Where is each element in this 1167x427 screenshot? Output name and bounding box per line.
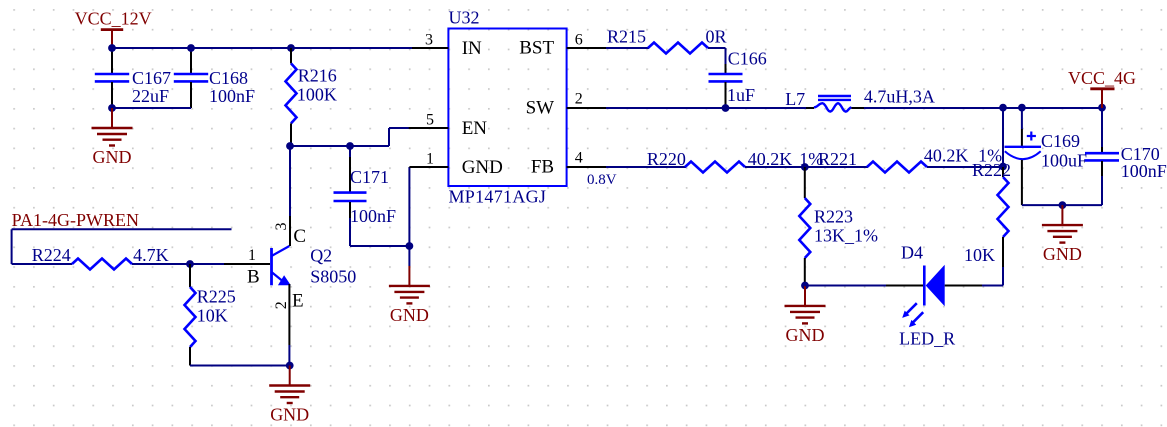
wire PA1-4G-PWREN <box>12 229 232 264</box>
resistor R215 <box>607 27 727 54</box>
capacitor C169 <box>1005 108 1088 205</box>
pin 1 GND <box>409 151 502 179</box>
svg-text:C171: C171 <box>350 167 389 187</box>
svg-text:S8050: S8050 <box>310 267 356 287</box>
svg-text:VCC_4G: VCC_4G <box>1068 68 1136 88</box>
svg-text:R224: R224 <box>32 245 71 265</box>
node bottom wire / GND junction <box>1059 201 1067 209</box>
svg-text:1uF: 1uF <box>727 85 755 105</box>
svg-text:13K_1%: 13K_1% <box>814 226 878 246</box>
resistor R216 <box>286 48 337 146</box>
node R221/R222 junction <box>999 163 1007 171</box>
svg-text:R221: R221 <box>818 149 857 169</box>
svg-text:EN: EN <box>462 118 488 139</box>
svg-text:2: 2 <box>273 301 290 309</box>
node R220/R221/R223 junction <box>801 163 809 171</box>
svg-text:U32: U32 <box>449 8 480 28</box>
wire VCC_12V rail to pin IN <box>111 47 412 49</box>
svg-text:L7: L7 <box>785 89 805 109</box>
svg-text:6: 6 <box>575 32 583 49</box>
svg-text:E: E <box>292 291 304 312</box>
svg-text:100uF: 100uF <box>1041 151 1087 171</box>
svg-text:1: 1 <box>426 151 434 168</box>
ground G1 <box>92 108 133 167</box>
svg-text:C: C <box>293 226 306 247</box>
wire R221 to output branch <box>927 108 1003 167</box>
power port VCC_12V <box>75 9 152 48</box>
wire SW to L7 <box>606 107 807 109</box>
pin 4 FB <box>531 150 617 189</box>
svg-text:C166: C166 <box>728 49 767 69</box>
svg-text:22uF: 22uF <box>132 86 169 106</box>
svg-text:R215: R215 <box>607 27 646 47</box>
pin 2 SW <box>526 91 606 119</box>
svg-text:SW: SW <box>526 98 555 119</box>
svg-text:GND: GND <box>390 305 429 325</box>
inductor L7 <box>785 87 935 112</box>
resistor R225 <box>185 264 236 366</box>
wire emitter <box>288 284 290 366</box>
svg-text:100K: 100K <box>297 85 337 105</box>
resistor R224 <box>32 245 169 270</box>
svg-text:5: 5 <box>426 112 434 129</box>
wire R222 bottom to LED <box>982 267 1003 286</box>
wire collector <box>289 146 291 246</box>
wire L7 to VCC_4G rail <box>864 107 1102 109</box>
svg-text:C168: C168 <box>209 68 248 88</box>
wire BST to R215 <box>606 47 649 49</box>
svg-text:VCC_12V: VCC_12V <box>75 9 152 29</box>
svg-text:10K: 10K <box>964 245 995 265</box>
wire C168 bottom to C167 bottom <box>112 107 191 109</box>
node rail / VCC_4G / C170 junction <box>1098 104 1106 112</box>
wire R225 bottom to emitter <box>190 365 290 367</box>
svg-text:100nF: 100nF <box>350 206 396 226</box>
svg-text:GND: GND <box>93 147 132 167</box>
svg-text:IN: IN <box>462 38 482 59</box>
svg-text:GND: GND <box>786 325 825 345</box>
pin 3 IN <box>412 32 482 60</box>
capacitor C167 <box>95 48 171 108</box>
wire R215 to C166 <box>708 48 726 64</box>
resistor R223 <box>799 167 878 286</box>
op-amp U1 IC U32 MP1471AGJ body <box>448 8 566 207</box>
svg-text:BST: BST <box>519 38 554 59</box>
svg-text:R220: R220 <box>647 149 686 169</box>
wire R220 to R221 <box>745 166 868 168</box>
node rail / R222 branch junction <box>999 104 1007 112</box>
wire GND junction to LED <box>805 285 886 287</box>
svg-text:C167: C167 <box>132 68 171 88</box>
svg-text:B: B <box>247 267 260 288</box>
ground G4 <box>785 286 826 345</box>
node C171 junction <box>346 142 354 150</box>
wire junction to GND symbol <box>408 246 410 266</box>
svg-text:LED_R: LED_R <box>899 329 955 349</box>
node C171 GND junction <box>406 242 414 250</box>
resistor R220 <box>647 149 823 173</box>
svg-text:4: 4 <box>575 150 583 167</box>
node rail / C169 junction <box>1018 104 1026 112</box>
node emitter / GND junction <box>286 362 294 370</box>
svg-text:GND: GND <box>1043 244 1082 264</box>
svg-text:3: 3 <box>425 32 433 49</box>
node R223 bottom / GND / LED junction <box>801 282 809 290</box>
capacitor C171 <box>334 146 397 246</box>
power port VCC_4G <box>1068 68 1136 108</box>
svg-text:PA1-4G-PWREN: PA1-4G-PWREN <box>12 210 139 230</box>
svg-text:D4: D4 <box>901 243 923 263</box>
node C166 / SW junction <box>722 104 730 112</box>
ground G3 <box>269 366 310 425</box>
svg-text:0.8V: 0.8V <box>587 172 617 188</box>
svg-text:4.7uH,3A: 4.7uH,3A <box>864 87 935 107</box>
svg-text:R223: R223 <box>814 207 853 227</box>
svg-text:0R: 0R <box>706 27 727 47</box>
svg-text:10K: 10K <box>197 306 228 326</box>
pin 5 EN <box>409 112 488 140</box>
svg-text:100nF: 100nF <box>209 86 255 106</box>
node R224/R225/base junction <box>186 260 194 268</box>
capacitor C166 <box>709 49 767 109</box>
svg-text:R225: R225 <box>197 287 236 307</box>
node VCC rail / R216 junction <box>287 44 295 52</box>
svg-text:40.2K: 40.2K <box>924 146 969 166</box>
svg-text:Q2: Q2 <box>310 246 332 266</box>
net label PA1-4G-PWREN <box>12 210 139 230</box>
node VCC rail / C168 junction <box>187 44 195 52</box>
svg-text:1: 1 <box>248 247 256 264</box>
resistor R222 <box>964 160 1011 268</box>
svg-text:3: 3 <box>273 223 290 231</box>
svg-text:2: 2 <box>575 91 583 108</box>
ground G5 <box>1042 205 1083 264</box>
ground G2 <box>389 266 430 325</box>
transistor Q2 S8050 <box>247 223 356 312</box>
svg-text:MP1471AGJ: MP1471AGJ <box>449 187 547 207</box>
diode LED D4 <box>886 243 982 349</box>
node VCC rail / C167 junction <box>108 44 116 52</box>
capacitor C170 <box>1085 108 1167 205</box>
svg-text:R216: R216 <box>298 66 337 86</box>
svg-text:GND: GND <box>462 157 503 178</box>
svg-text:GND: GND <box>270 405 309 425</box>
svg-text:4.7K: 4.7K <box>133 245 169 265</box>
capacitor C168 <box>174 48 255 108</box>
wire R224 to Q2 base <box>132 263 270 265</box>
svg-text:C169: C169 <box>1041 131 1080 151</box>
wire C171 bottom / GND pin 1 <box>350 167 409 246</box>
svg-text:FB: FB <box>531 157 554 178</box>
svg-text:R222: R222 <box>972 160 1011 180</box>
wire R216 bottom to EN pin <box>290 128 410 146</box>
resistor R221 <box>818 146 1002 173</box>
svg-text:100nF: 100nF <box>1121 161 1167 181</box>
node C167 bottom / GND junction <box>108 104 116 112</box>
node R216/collector/EN junction <box>286 142 294 150</box>
pin 6 BST <box>519 32 606 59</box>
wire C169 bottom to C170 bottom <box>1022 204 1102 206</box>
wire FB to R220 <box>606 166 686 168</box>
